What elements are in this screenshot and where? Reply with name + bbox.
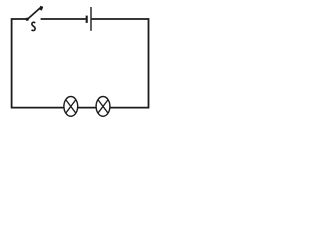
lamp L1 [64,97,78,117]
wire switch to battery [41,18,86,20]
wire left+bottom-left segment [12,19,64,108]
lamp L2 [96,97,110,117]
battery cell: short thick negative plate [86,16,88,23]
wire bottom-right + right + top-right segment [92,19,149,108]
label S (drawn as path) [32,22,36,30]
wire between lamps [78,107,96,109]
battery cell: long thin positive plate [90,7,92,31]
switch S (open knife switch) [26,6,42,21]
